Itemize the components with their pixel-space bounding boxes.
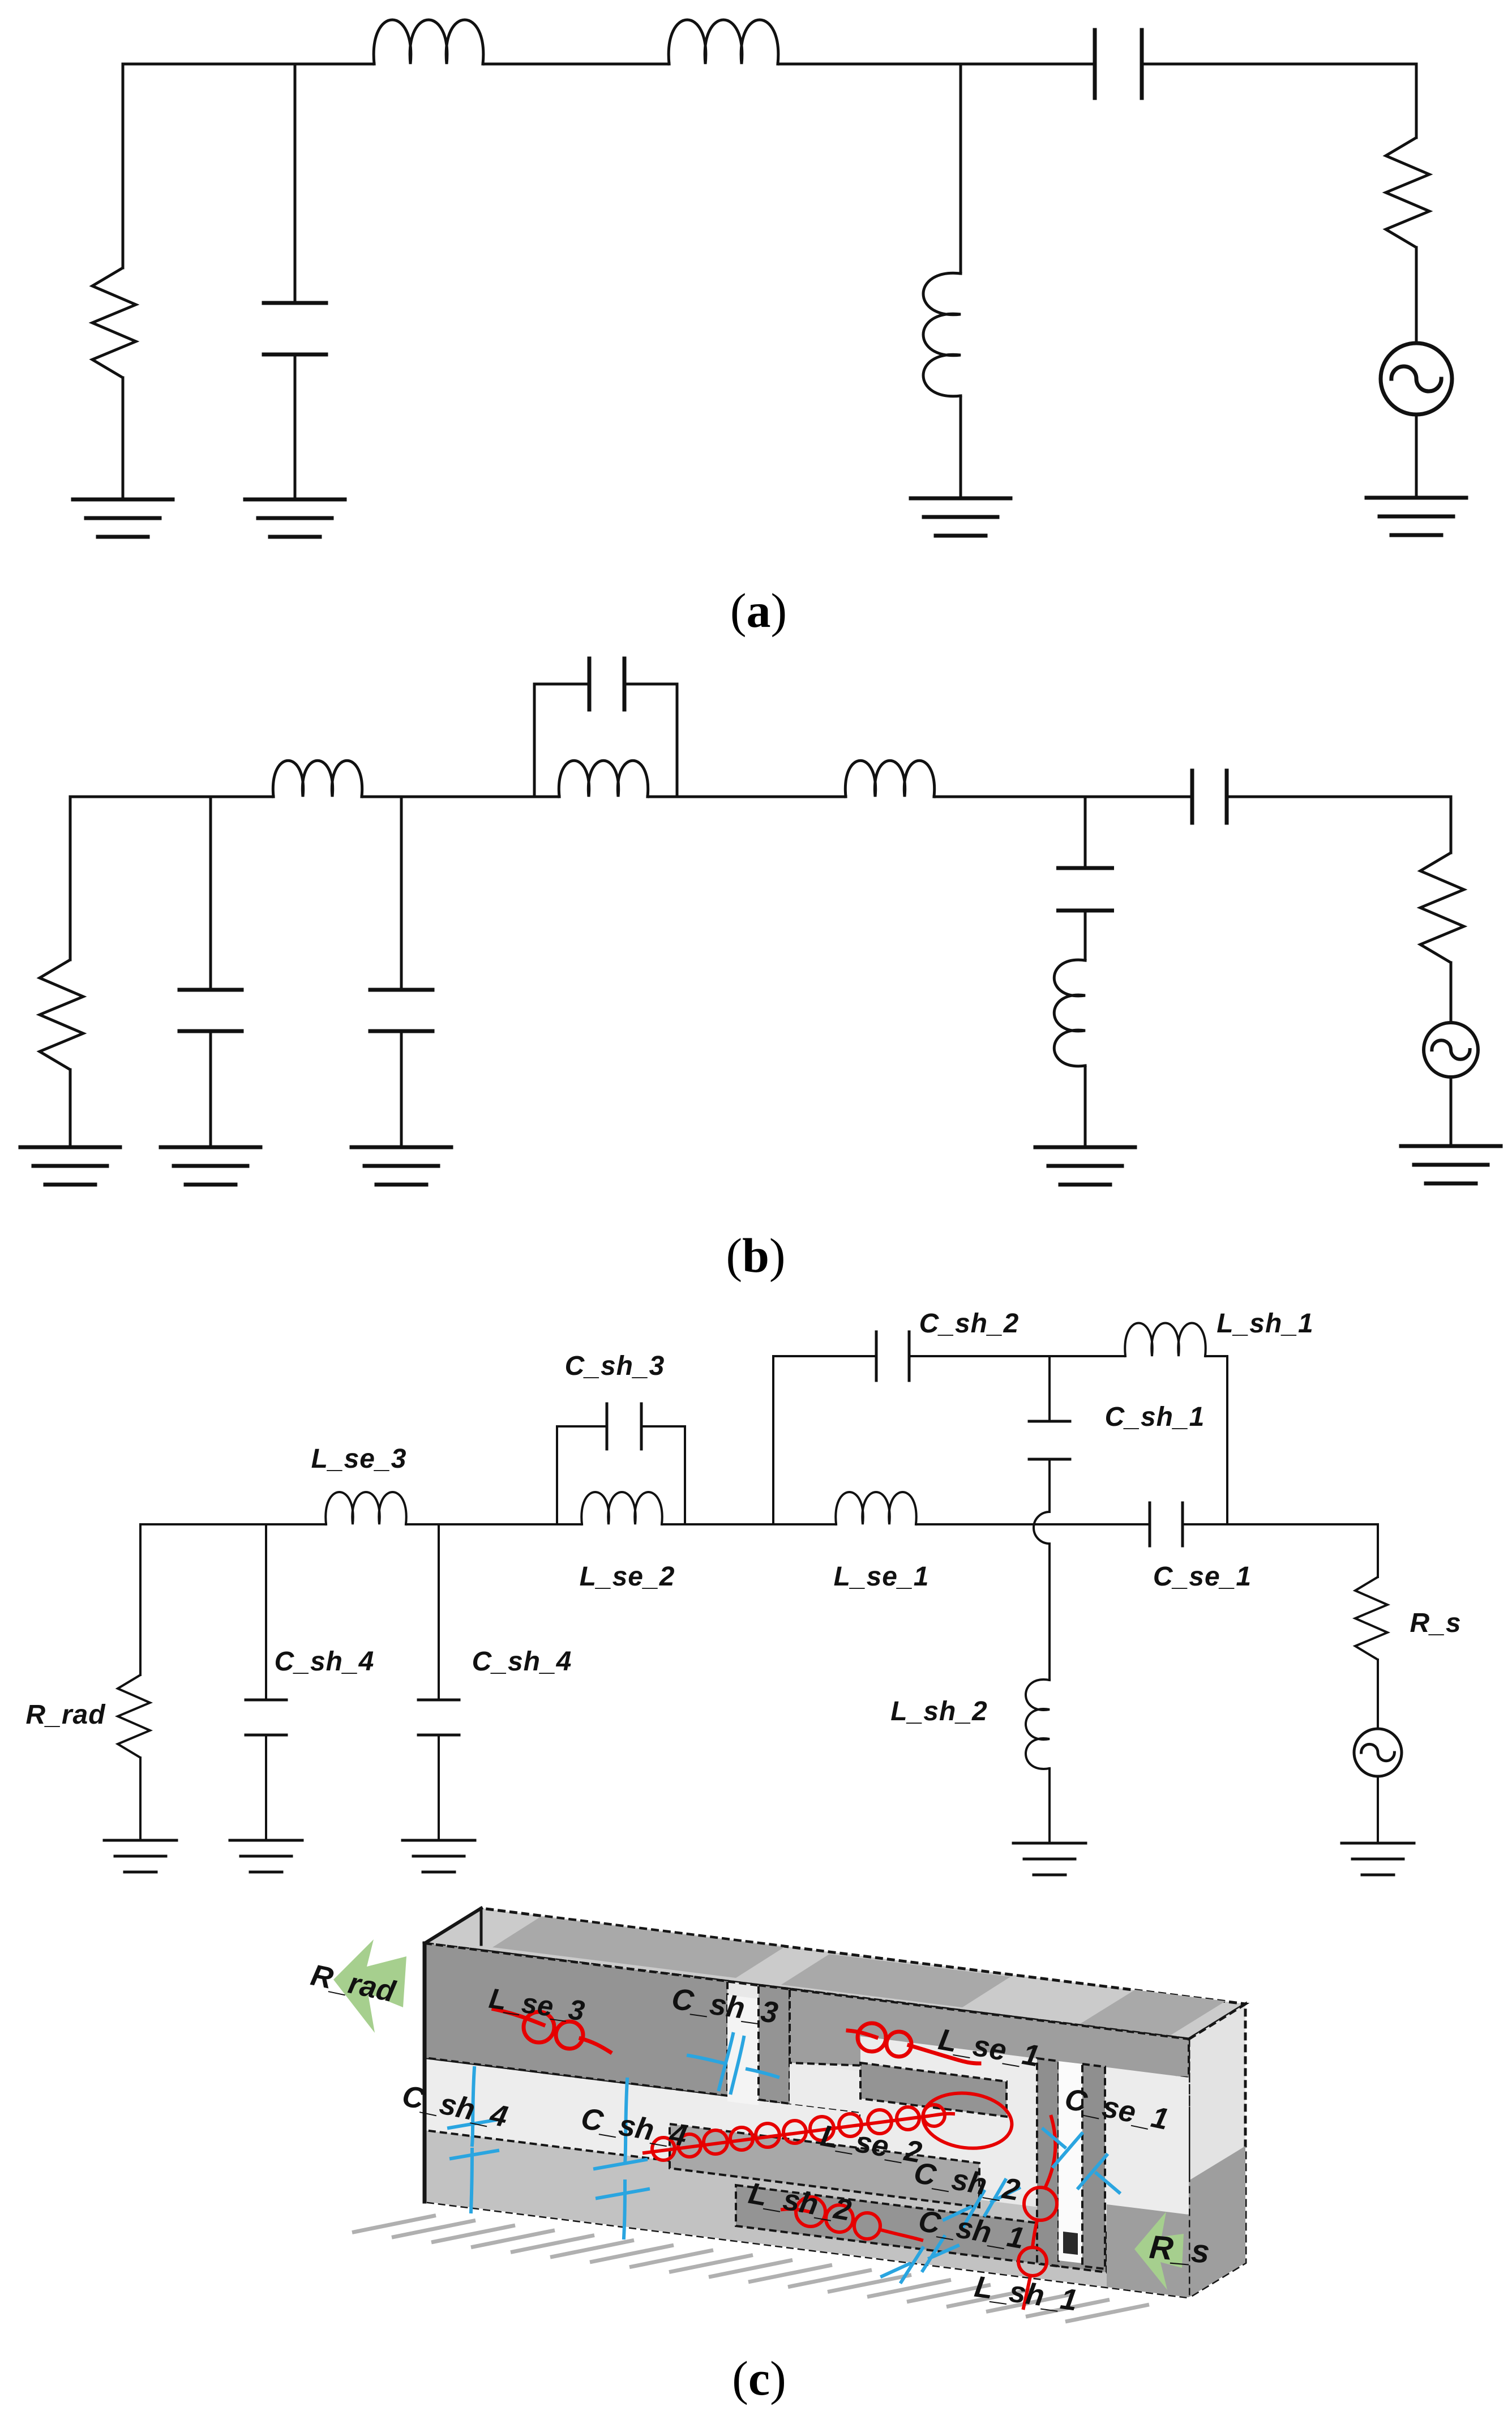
3D annotation: coil L_se_1 (red): [848, 2023, 979, 2063]
svg-text:C_sh_2: C_sh_2: [919, 1309, 1020, 1339]
resistor R_s: [1355, 1577, 1387, 1660]
3D annotation: C_sh_2 mark (blue): [944, 2180, 1019, 2226]
inductor L_sh_1: [1125, 1323, 1205, 1357]
3D structure: front dark band (mid): [759, 1985, 790, 2104]
capacitor (series C, circuit a): [1095, 30, 1142, 98]
3D structure: top face: [425, 1908, 1245, 2039]
ground (below shunt C2, circuit b): [352, 1147, 451, 1185]
ground (below second C_sh_4): [402, 1840, 475, 1872]
wire: shunt capacitor 2 to ground (b): [400, 1031, 403, 1147]
svg-text:L_se_1: L_se_1: [834, 1562, 930, 1592]
label L_se_3: [311, 1444, 407, 1474]
3D structure: front light band (left): [425, 2058, 860, 2185]
3D structure: front face base: [425, 1943, 1189, 2297]
wire: shunt capacitor 1 to ground (b): [209, 1031, 212, 1147]
label L_sh_2: [890, 1696, 987, 1726]
caption (c): [732, 2351, 786, 2405]
3D label R_s (3D): [1148, 2229, 1211, 2271]
wire: L_sh_2 to ground: [1048, 1768, 1051, 1843]
3D label L_se_1 (3D): [936, 2023, 1042, 2073]
label C_se_1: [1153, 1562, 1252, 1592]
caption (a): [730, 583, 787, 638]
AC source (circuit b): [1424, 1023, 1478, 1077]
wire: source to ground (a): [1415, 414, 1418, 498]
wire: drop to shunt inductor (a): [960, 64, 962, 273]
3D structure: front bottom band: [425, 2130, 1189, 2297]
3D label L_se_3: [487, 1982, 586, 2027]
capacitor (shunt C, circuit a): [264, 303, 326, 354]
ground (below L_sh_2): [1013, 1843, 1086, 1875]
inductor (shunt L, circuit a): [923, 273, 961, 396]
capacitor (shunt branch C, circuit b): [1059, 868, 1112, 911]
3D annotation: C_sh_3 mark (blue): [688, 2034, 778, 2093]
label C_sh_4 (second): [472, 1647, 572, 1677]
inductor (series L1, circuit b): [273, 760, 362, 797]
inductor (series L3, circuit b): [845, 760, 934, 797]
label C_sh_4 (first): [275, 1647, 375, 1677]
3D structure: meander arm middle: [670, 2124, 979, 2207]
3D structure: vertical slot bar 2: [1082, 2064, 1105, 2269]
wire: source to ground (b): [1450, 1077, 1453, 1146]
resistor R_rad: [118, 1675, 150, 1758]
wire: resistor to source (b): [1450, 963, 1453, 1023]
label C_sh_1: [1105, 1402, 1205, 1432]
3D structure: front dark band (left): [425, 1943, 727, 2096]
resistor (shunt R, circuit a): [92, 268, 136, 378]
3D annotation: red feed line with loops (L_sh_1): [1018, 2117, 1057, 2308]
svg-text:L_se_3: L_se_3: [311, 1444, 407, 1474]
3D annotation: coil L_sh_2 (red): [782, 2197, 922, 2240]
wire: resistor to source (a): [1415, 247, 1418, 343]
AC source (circuit a): [1381, 343, 1452, 414]
wire: right drop to source resistor (a): [1415, 64, 1418, 138]
wire: C_sh_4 first to ground: [265, 1735, 267, 1840]
ground (below source, circuit b): [1401, 1146, 1501, 1183]
svg-text:R_rad: R_rad: [25, 1700, 106, 1730]
svg-text:C_sh_4: C_sh_4: [275, 1647, 375, 1677]
inductor (series L2 under parallel C, circuit b): [559, 760, 648, 797]
3D structure: meander arm upper: [860, 2063, 1006, 2117]
capacitor C_sh_1: [1029, 1421, 1070, 1459]
wire: C_sh_4 second to ground: [438, 1735, 440, 1840]
3D structure: slot notch: [1063, 2232, 1078, 2255]
capacitor C_sh_2: [876, 1332, 909, 1381]
wire: drop to C_sh_4 (second): [438, 1524, 440, 1700]
wire: shunt branch to ground (b): [1084, 1066, 1087, 1147]
3D annotation: C_sh_4 mark first (blue): [449, 2068, 498, 2212]
3D label L_sh_2 (3D): [746, 2177, 854, 2228]
3D structure: top face dark inlays: [492, 1917, 1226, 2036]
resistor (source R, circuit b): [1420, 853, 1464, 963]
wire: top bus of circuit (a): [123, 63, 1416, 66]
svg-text:C_sh_1: C_sh_1: [1105, 1402, 1205, 1432]
3D annotation: C_sh_1 mark (blue): [882, 2237, 958, 2282]
wire: drop to C_sh_4 (first): [265, 1524, 267, 1700]
3D label C_sh_4 second (3D): [579, 2101, 689, 2153]
wire: left drop to resistor (b): [69, 797, 72, 960]
inductor (series L2, circuit a): [669, 20, 778, 64]
inductor L_se_2: [581, 1492, 662, 1524]
svg-text:(c): (c): [732, 2351, 786, 2405]
ground (below shunt L, circuit a): [911, 498, 1010, 536]
svg-text:R_s: R_s: [1148, 2229, 1211, 2271]
wire: R_s to source: [1377, 1660, 1379, 1729]
ground (below source, circuit c): [1342, 1843, 1414, 1875]
wire: shunt inductor to ground (a): [960, 396, 962, 498]
capacitor C_sh_4 (first): [246, 1700, 286, 1735]
capacitor (parallel C, circuit b): [589, 659, 624, 710]
svg-text:(a): (a): [730, 583, 787, 638]
wire: crossover hop over main bus (c): [1034, 1512, 1050, 1544]
wire: drop to shunt capacitor 2 (b): [400, 797, 403, 990]
wire: main bus of circuit (c): [140, 1523, 1378, 1525]
ground (below shunt R, circuit a): [73, 499, 173, 537]
svg-text:(b): (b): [726, 1228, 785, 1283]
3D structure: front top strip (slanted): [790, 1989, 1189, 2078]
wire: drop to shunt capacitor 1 (b): [209, 797, 212, 990]
label R_rad: [25, 1700, 106, 1730]
3D structure: right lower dark patch: [1107, 2204, 1189, 2297]
capacitor (series C, circuit b): [1192, 771, 1227, 823]
svg-text:C_sh_3: C_sh_3: [565, 1351, 665, 1381]
3D label R_rad: [308, 1958, 399, 2008]
label C_sh_3: [565, 1351, 665, 1381]
wire: source to ground (c): [1377, 1776, 1379, 1843]
ground (below source, circuit a): [1367, 498, 1466, 535]
capacitor C_se_1: [1150, 1503, 1183, 1546]
3D structure: meander arm bottom: [736, 2185, 1107, 2272]
3D label C_se_1 (3D): [1062, 2082, 1172, 2136]
label R_s: [1410, 1608, 1461, 1638]
resistor (shunt R, circuit b): [40, 960, 83, 1070]
3D structure: right end face: [1189, 2004, 1245, 2297]
ground (below shunt branch, circuit b): [1035, 1147, 1135, 1185]
wire: right drop to R_s: [1377, 1524, 1379, 1577]
3D label L_sh_1 (3D): [973, 2270, 1080, 2318]
wire: R_rad to ground: [139, 1758, 142, 1840]
wire: resistor to ground (a): [122, 378, 125, 499]
3D annotation: C_sh_4 mark second (blue): [595, 2079, 648, 2238]
svg-text:C_se_1: C_se_1: [1153, 1562, 1252, 1592]
inductor (series L1, circuit a): [374, 20, 483, 64]
svg-text:L_sh_1: L_sh_1: [1217, 1309, 1313, 1339]
3D structure: meander recess (right): [860, 2036, 1189, 2215]
label C_sh_2: [919, 1309, 1020, 1339]
wire: C_sh_1 branch upper lead: [1048, 1356, 1051, 1421]
3D annotation: R_s arrow (green): [1134, 2212, 1184, 2290]
wire: left drop to R_rad: [139, 1524, 142, 1675]
3D label C_sh_3 (3D): [670, 1982, 780, 2030]
3D annotation: coil L_se_3 (red): [494, 2009, 610, 2052]
ground (below R_rad): [104, 1840, 177, 1872]
svg-text:L_se_2: L_se_2: [580, 1562, 675, 1592]
wire: crossover to L_sh_2: [1048, 1544, 1051, 1680]
3D label C_sh_2 (3D): [911, 2156, 1022, 2207]
3D structure: window left of meander: [790, 2063, 860, 2112]
inductor L_se_3: [325, 1492, 406, 1524]
wire: drop to shunt capacitor (a): [294, 64, 297, 303]
capacitor (shunt C2, circuit b): [370, 990, 432, 1031]
wire: drop to series-LC shunt branch (b): [1084, 797, 1087, 868]
inductor (shunt branch L, circuit b): [1054, 960, 1085, 1066]
label L_se_1: [834, 1562, 930, 1592]
capacitor (shunt C1, circuit b): [179, 990, 242, 1031]
AC source (circuit c): [1354, 1729, 1402, 1776]
3D structure: left edge lines: [425, 1908, 481, 2202]
label L_se_2: [580, 1562, 675, 1592]
wire: shunt capacitor to ground (a): [294, 354, 297, 499]
inductor L_sh_2: [1026, 1679, 1050, 1769]
caption (b): [726, 1228, 785, 1283]
resistor (source R, circuit a): [1386, 138, 1429, 247]
wire: parallel loop of C_sh_3 over L_se_2: [557, 1426, 685, 1524]
ground (below shunt R, circuit b): [20, 1147, 120, 1185]
wire: shunt branch C to L (b): [1084, 911, 1087, 960]
3D structure: front C_sh_3 slot: [727, 1995, 759, 2105]
wire: resistor to ground (b): [69, 1070, 72, 1147]
wire: left drop to resistor (a): [122, 64, 125, 268]
capacitor C_sh_3: [607, 1404, 641, 1449]
3D label L_se_2 (3D): [818, 2119, 924, 2169]
3D structure: white slot between bars: [1059, 2061, 1082, 2263]
svg-text:C_sh_4: C_sh_4: [472, 1647, 572, 1677]
ground (below shunt C, circuit a): [245, 499, 345, 537]
label L_sh_1: [1217, 1309, 1313, 1339]
inductor L_se_1: [836, 1492, 916, 1524]
3D label C_sh_1 (3D): [916, 2204, 1027, 2255]
3D structure: vertical slot bar 1: [1037, 2058, 1059, 2266]
3D annotation: R_rad arrow (green): [333, 1939, 406, 2033]
svg-text:R_s: R_s: [1410, 1608, 1461, 1638]
wire: main bus of circuit (b): [70, 796, 1451, 798]
wire: parallel LC loop (b): [534, 684, 677, 797]
wire: C_sh_1 to crossover: [1048, 1459, 1051, 1512]
ground (below shunt C1, circuit b): [161, 1147, 260, 1185]
ground (below first C_sh_4): [230, 1840, 302, 1872]
wire: right drop to source resistor (b): [1450, 797, 1453, 853]
3D structure: whisker pins (bottom fan): [352, 2216, 1149, 2322]
3D label C_sh_4 first (3D): [399, 2079, 511, 2134]
wire: upper branch riser and run (c): [773, 1356, 1227, 1524]
svg-text:L_sh_2: L_sh_2: [890, 1696, 987, 1726]
3D annotation: coil L_se_2 (red): [644, 2088, 1015, 2160]
3D annotation: C_se_1 mark (blue): [1043, 2129, 1119, 2193]
capacitor C_sh_4 (second): [418, 1700, 459, 1735]
